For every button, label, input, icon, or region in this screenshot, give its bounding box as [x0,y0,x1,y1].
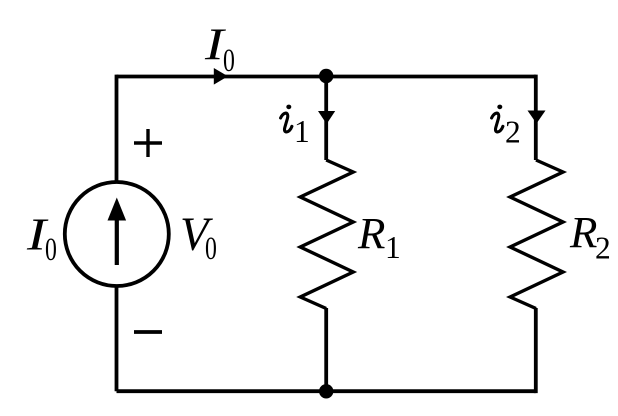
label R2 [569,207,611,265]
label V0 source right [180,208,217,267]
wire middle branch lower (from R1) [324,308,328,391]
wire left vertical upper [115,75,119,182]
minus polarity sign [134,330,162,334]
node A junction dot top [319,69,333,83]
current source U1 circle [65,182,169,286]
wire top horizontal [117,75,536,79]
svg-text:1: 1 [294,114,310,149]
svg-text:2: 2 [595,231,611,266]
svg-text:1: 1 [385,230,401,265]
svg-text:0: 0 [223,42,235,79]
arrowhead I0 on top wire [214,68,228,85]
label i2 [492,105,521,150]
wire middle branch upper (to R1) [324,77,328,161]
label I0 top current [204,21,235,79]
arrowhead i1 on middle branch [318,111,335,124]
wire right branch lower (from R2) [534,308,538,393]
wire left vertical lower [115,287,119,391]
svg-text:0: 0 [45,231,57,268]
resistor R1 zigzag [300,160,353,309]
label i1 [281,105,310,149]
node B junction dot bottom [319,384,333,398]
arrowhead i2 on right branch [528,111,546,124]
wire bottom horizontal [117,389,536,393]
wire right branch upper (to R2) [534,75,538,160]
resistor R2 zigzag [510,160,563,309]
svg-text:2: 2 [505,115,521,150]
label I0 source left [26,210,57,268]
label R1 [357,208,401,265]
current source U1 internal arrow [108,198,127,266]
svg-text:0: 0 [205,230,217,267]
svg-text:R: R [569,207,597,257]
svg-text:R: R [357,208,385,258]
plus polarity sign [134,129,162,157]
